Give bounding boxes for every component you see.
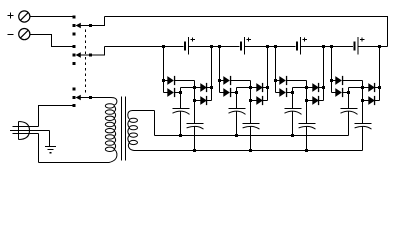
junction: [305, 149, 308, 152]
diode D4a: [332, 76, 344, 85]
wire: [91, 17, 105, 26]
wire (filter mid rail): [155, 135, 349, 137]
junction: [179, 134, 182, 137]
label + for battery B3: [303, 38, 308, 42]
wire: [362, 127, 364, 151]
junction: [291, 134, 294, 137]
junction: [249, 149, 252, 152]
wire: [180, 111, 182, 135]
diode D3c: [312, 83, 323, 92]
wire: [219, 47, 221, 93]
diode D4b: [332, 88, 349, 97]
wire: [250, 127, 252, 151]
transformer T1 primary bottom lead: [107, 149, 117, 162]
wire: [236, 88, 238, 109]
junction: [162, 79, 165, 82]
diode D2d: [251, 96, 268, 105]
junction: [305, 99, 308, 102]
junction: [235, 134, 238, 137]
label + for terminal J1: [8, 13, 14, 19]
junction: [322, 86, 325, 89]
transformer T1 secondary bottom lead: [128, 143, 136, 151]
transformer T1 core: [122, 97, 126, 161]
wire: [39, 162, 108, 164]
battery B4: [355, 37, 359, 55]
battery B2: [241, 37, 245, 55]
wire: [275, 47, 277, 93]
wire (battery bus): [358, 46, 388, 48]
transformer T1 secondary top lead: [128, 111, 155, 119]
junction: [193, 99, 196, 102]
wire: [30, 35, 73, 47]
junction: [361, 99, 364, 102]
wire (positive top bus): [105, 17, 388, 47]
wire: [250, 81, 252, 124]
wire (rectifier rail): [349, 87, 369, 89]
junction: [179, 91, 182, 94]
diode D3a: [276, 76, 288, 85]
capacitor C2a: [229, 109, 246, 115]
capacitor C4b: [355, 124, 372, 130]
junction: [235, 91, 238, 94]
wire: [287, 80, 306, 82]
switch S1 mechanical linkage (dashed): [85, 30, 87, 96]
wire: [91, 97, 112, 99]
junction: [330, 79, 333, 82]
junction: [274, 45, 277, 48]
capacitor C1b: [187, 124, 204, 130]
wire: [180, 88, 182, 109]
capacitor C4a: [341, 109, 358, 115]
wire: [194, 81, 196, 124]
wire: [323, 47, 325, 101]
wire: [292, 88, 294, 109]
junction: [249, 86, 252, 89]
wire (rectifier rail): [237, 87, 257, 89]
AC plug P1 prong (line): [13, 126, 39, 128]
wire (rectifier rail): [293, 87, 313, 89]
switch S1 pole 1 (contacts and arm): [73, 16, 93, 36]
switch S1 pole 2 (contacts and arm): [73, 45, 93, 65]
junction: [361, 86, 364, 89]
diode D1a: [164, 76, 176, 85]
capacitor C1a: [173, 109, 190, 115]
wire: [379, 47, 381, 101]
wire (battery bus): [105, 46, 184, 48]
label - for terminal J2: [8, 34, 14, 36]
junction: [210, 45, 213, 48]
diode D2a: [220, 76, 232, 85]
wire (bottom bus): [136, 150, 363, 152]
diode D2c: [256, 83, 267, 92]
ground: [45, 147, 56, 153]
wire: [38, 134, 40, 163]
diode D1d: [195, 96, 212, 105]
wire: [362, 81, 364, 124]
wire: [194, 127, 196, 151]
junction: [322, 45, 325, 48]
wire: [306, 127, 308, 151]
wire: [306, 81, 308, 124]
wire: [331, 47, 333, 93]
diode D1c: [200, 83, 211, 92]
junction: [218, 79, 221, 82]
junction: [162, 45, 165, 48]
diode D4c: [368, 83, 379, 92]
junction: [347, 91, 350, 94]
junction: [249, 99, 252, 102]
junction: [266, 86, 269, 89]
wire (rectifier rail): [181, 87, 201, 89]
wire (battery bus): [301, 46, 354, 48]
transformer T1 primary top lead: [111, 98, 117, 106]
wire: [348, 88, 350, 109]
wire: [211, 47, 213, 101]
wire: [175, 80, 194, 82]
wire: [154, 111, 156, 136]
junction: [378, 45, 381, 48]
junction: [305, 86, 308, 89]
wire: [39, 106, 73, 127]
AC plug P1 body: [19, 122, 30, 140]
junction: [210, 86, 213, 89]
label + for battery B4: [360, 38, 365, 42]
junction: [193, 149, 196, 152]
transformer T1 secondary winding: [128, 118, 138, 144]
junction: [378, 86, 381, 89]
wire (battery bus): [189, 46, 240, 48]
junction: [330, 45, 333, 48]
wire: [91, 47, 105, 56]
wire (battery bus): [245, 46, 296, 48]
junction: [193, 86, 196, 89]
battery B3: [297, 37, 301, 55]
wire: [49, 131, 51, 147]
terminal J1 (+ DC output): [19, 11, 30, 22]
label + for battery B1: [191, 38, 196, 42]
wire: [231, 80, 250, 82]
junction: [266, 45, 269, 48]
label + for battery B2: [247, 38, 252, 42]
junction: [218, 45, 221, 48]
switch S1 pole 3 (contacts and arm): [73, 88, 93, 108]
wire: [30, 16, 73, 18]
capacitor C3b: [299, 124, 316, 130]
junction: [274, 79, 277, 82]
battery B1: [185, 37, 189, 55]
AC plug P1 prong (neutral): [10, 130, 50, 132]
diode D3d: [307, 96, 324, 105]
wire: [292, 111, 294, 135]
junction: [291, 91, 294, 94]
wire: [236, 111, 238, 135]
diode D4d: [363, 96, 380, 105]
wire: [267, 47, 269, 101]
transformer T1 primary winding: [105, 104, 115, 152]
diode D1b: [164, 88, 181, 97]
capacitor C3a: [285, 109, 302, 115]
diode D2b: [220, 88, 237, 97]
wire: [163, 47, 165, 93]
wire: [343, 80, 362, 82]
terminal J2 (- DC output): [19, 28, 30, 39]
diode D3b: [276, 88, 293, 97]
wire: [348, 111, 350, 135]
capacitor C2b: [243, 124, 260, 130]
AC plug P1 prong (ground): [13, 133, 39, 135]
